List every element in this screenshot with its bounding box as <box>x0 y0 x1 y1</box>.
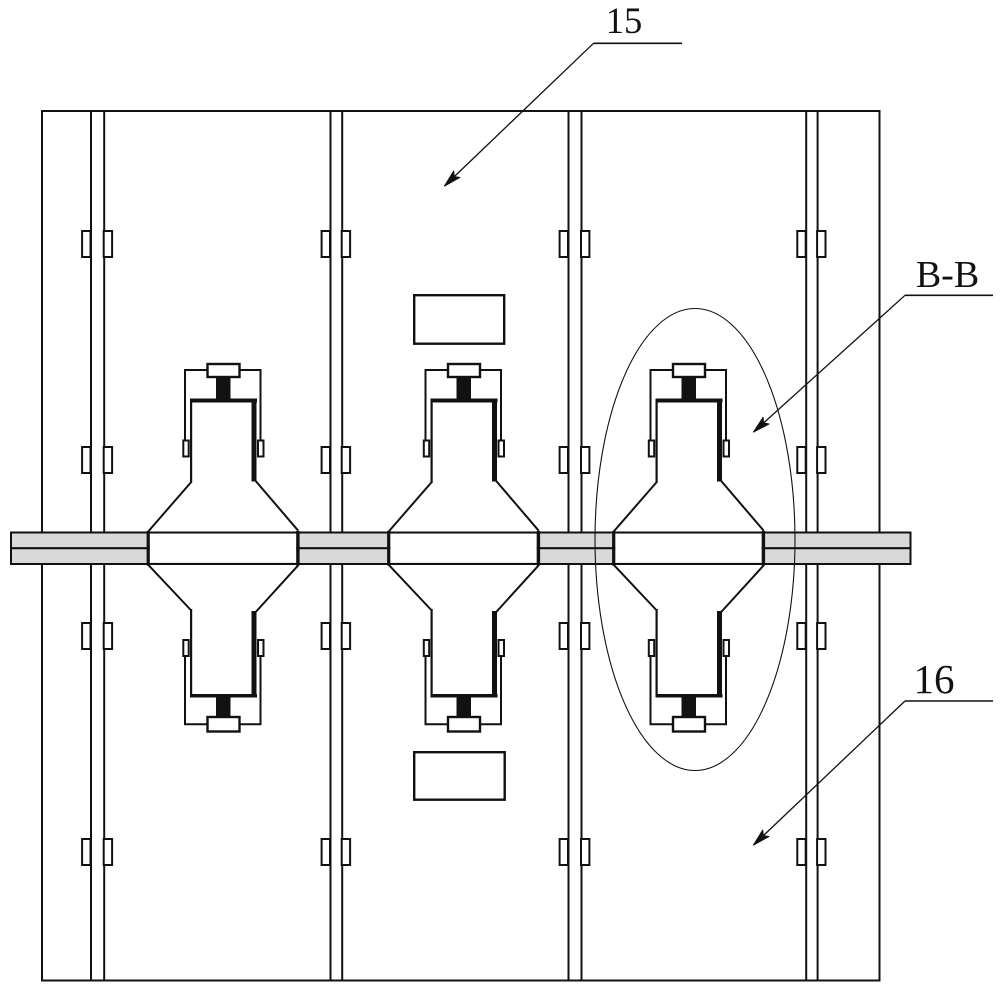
svg-text:16: 16 <box>914 656 955 702</box>
svg-text:B-B: B-B <box>916 254 979 296</box>
svg-text:15: 15 <box>606 0 643 41</box>
